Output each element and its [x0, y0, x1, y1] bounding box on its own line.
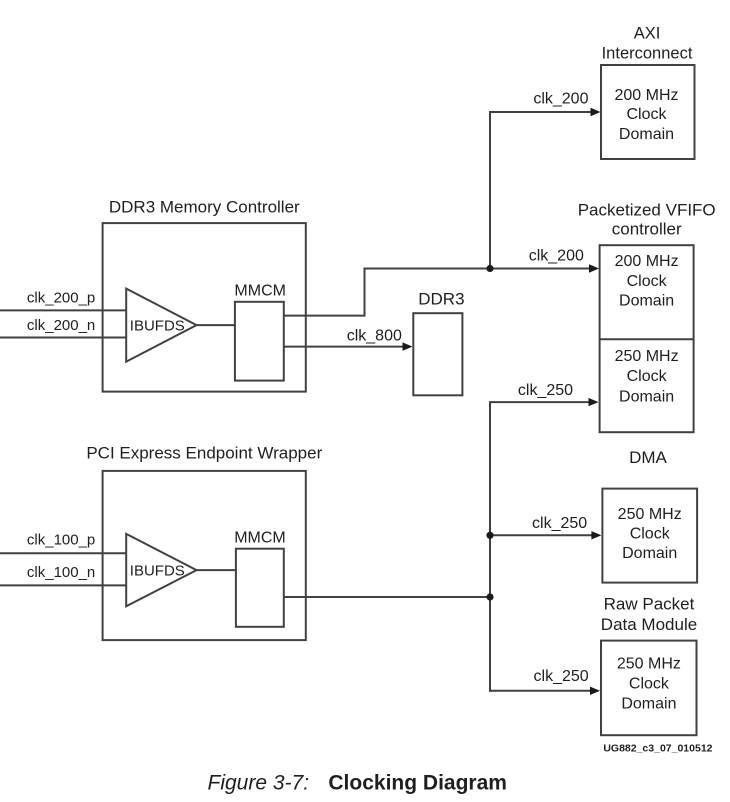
arrowhead clk_250 to DMA: [591, 531, 601, 539]
svg-text:Domain: Domain: [622, 545, 677, 562]
svg-text:clk_200: clk_200: [533, 91, 588, 108]
svg-text:clk_800: clk_800: [347, 328, 402, 345]
wire clk_200_p input: [0, 309, 127, 311]
svg-text:clk_200: clk_200: [529, 248, 584, 265]
svg-text:IBUFDS: IBUFDS: [130, 318, 185, 335]
svg-text:clk_200_p: clk_200_p: [27, 290, 95, 307]
block Raw Packet 250MHz clock domain: [601, 641, 697, 736]
svg-text:IBUFDS: IBUFDS: [130, 563, 185, 580]
block DDR3 Memory Controller: [103, 223, 306, 392]
wire clk_200 to AXI horizontal: [490, 111, 593, 113]
svg-text:250 MHz: 250 MHz: [617, 655, 681, 672]
wire IBUFDS to MMCM (DDR3): [197, 324, 235, 326]
svg-text:DDR3: DDR3: [418, 290, 464, 309]
svg-text:Clock: Clock: [629, 676, 670, 693]
wire MMCM out1 horizontal (clk_200): [284, 315, 366, 317]
wire clk_250 vertical trunk: [489, 401, 491, 692]
block DDR3: [413, 313, 462, 395]
wire MMCM out1 vertical riser: [364, 269, 366, 317]
svg-text:Raw Packet: Raw Packet: [604, 595, 695, 614]
svg-text:clk_100_p: clk_100_p: [27, 532, 95, 549]
svg-text:250 MHz: 250 MHz: [615, 348, 679, 365]
svg-text:MMCM: MMCM: [234, 529, 286, 546]
wire IBUFDS to MMCM (PCIe): [197, 569, 236, 571]
wire clk_200_n input: [0, 337, 127, 339]
svg-text:DMA: DMA: [629, 448, 667, 467]
svg-text:clk_250: clk_250: [532, 515, 587, 532]
svg-text:Domain: Domain: [619, 293, 674, 310]
buffer IBUFDS (DDR3): [126, 289, 196, 362]
svg-text:PCI Express Endpoint Wrapper: PCI Express Endpoint Wrapper: [86, 443, 322, 462]
svg-text:Data Module: Data Module: [601, 615, 697, 634]
svg-text:AXI: AXI: [634, 25, 661, 43]
junction clk_200 node: [486, 265, 493, 272]
svg-text:Domain: Domain: [621, 696, 676, 713]
svg-text:clk_200_n: clk_200_n: [27, 317, 95, 334]
block AXI Interconnect 200MHz clock domain: [601, 65, 695, 159]
block PCI Express Endpoint Wrapper: [103, 471, 306, 640]
svg-text:MMCM: MMCM: [234, 283, 286, 300]
svg-text:200 MHz: 200 MHz: [614, 87, 678, 104]
block Packetized VFIFO controller: [600, 245, 694, 432]
svg-text:controller: controller: [612, 220, 682, 239]
arrowhead clk_200 to AXI: [591, 108, 601, 116]
arrowhead clk_200 to VFIFO: [589, 264, 599, 272]
svg-text:UG882_c3_07_010512: UG882_c3_07_010512: [603, 742, 712, 754]
junction clk_250 node (PCIe out): [486, 593, 493, 600]
buffer IBUFDS (PCIe): [126, 534, 196, 606]
svg-text:200 MHz: 200 MHz: [615, 253, 679, 270]
wire MMCM (PCIe) out to trunk: [284, 596, 491, 598]
wire clk_250 to VFIFO horizontal: [490, 401, 591, 403]
block MMCM (PCIe): [236, 549, 284, 627]
svg-text:clk_250: clk_250: [518, 382, 573, 399]
svg-text:clk_250: clk_250: [534, 668, 589, 685]
svg-text:Clocking Diagram: Clocking Diagram: [328, 772, 507, 795]
svg-text:Figure 3-7:: Figure 3-7:: [208, 772, 310, 795]
wire clk_250 to Raw Packet horizontal: [489, 690, 593, 692]
arrowhead clk_250 to VFIFO: [589, 398, 599, 406]
svg-text:Domain: Domain: [619, 388, 674, 405]
wire MMCM out2 clk_800: [284, 346, 404, 348]
svg-text:Interconnect: Interconnect: [602, 44, 693, 62]
wire clk_100_p input: [0, 552, 127, 554]
junction clk_250 node (DMA): [486, 532, 493, 539]
svg-text:Packetized VFIFO: Packetized VFIFO: [578, 201, 716, 220]
svg-text:DDR3 Memory Controller: DDR3 Memory Controller: [109, 198, 300, 217]
svg-text:Domain: Domain: [619, 126, 674, 143]
svg-text:Clock: Clock: [627, 368, 668, 385]
arrowhead clk_250 to Raw Packet: [590, 687, 600, 695]
wire clk_100_n input: [0, 584, 127, 586]
svg-text:Clock: Clock: [630, 526, 671, 543]
wire clk_200 to VFIFO horizontal: [364, 268, 593, 270]
svg-text:250 MHz: 250 MHz: [618, 506, 682, 523]
svg-text:clk_100_n: clk_100_n: [27, 564, 95, 581]
wire clk_250 to DMA horizontal: [490, 534, 594, 536]
svg-text:Clock: Clock: [627, 273, 668, 290]
block DMA 250MHz clock domain: [602, 489, 697, 583]
divider VFIFO clock domains: [600, 338, 694, 340]
block MMCM (DDR3): [235, 302, 284, 381]
arrowhead clk_800 to DDR3: [403, 342, 413, 350]
wire clk_200 vertical riser: [489, 111, 491, 269]
svg-text:Clock: Clock: [626, 106, 667, 123]
